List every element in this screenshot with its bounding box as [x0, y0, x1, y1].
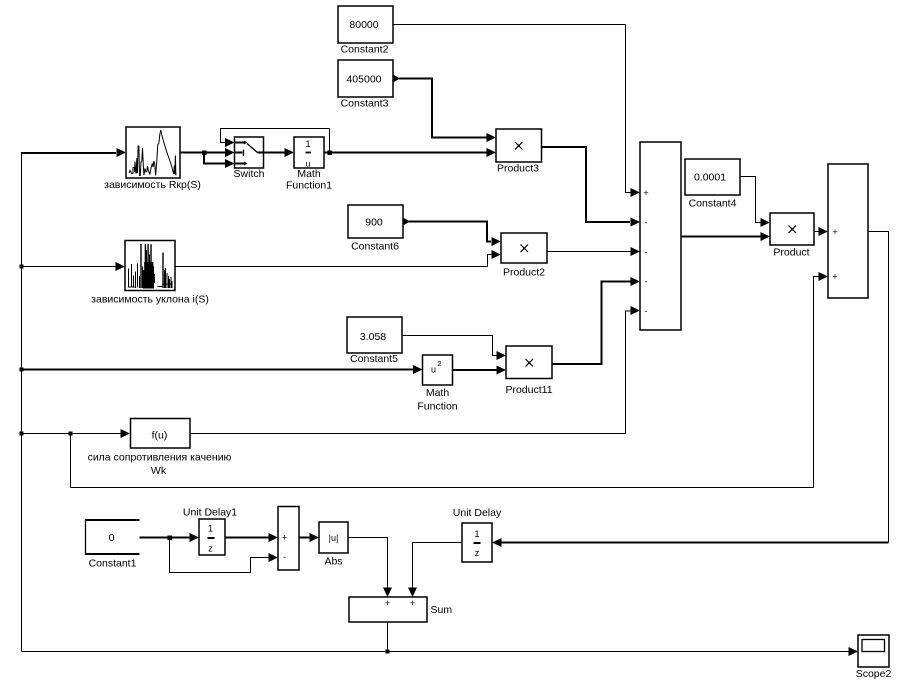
- block f(u) Fcn: [131, 419, 191, 449]
- wire Abs output to bottom Sum input1: [348, 538, 388, 589]
- svg-text:900: 900: [365, 217, 383, 229]
- wire Switch to Math Function1: [264, 152, 286, 154]
- svg-text:зависимость уклона i(S): зависимость уклона i(S): [91, 294, 209, 306]
- wire Product output to right adder input1: [814, 231, 819, 233]
- block Product3: [496, 129, 542, 162]
- block зависимость уклона i(S) lookup: [125, 241, 175, 291]
- wire Constant3 to Product3 input1: [393, 75, 400, 83]
- wire into уклона block: [22, 266, 116, 268]
- svg-text:z: z: [475, 548, 480, 558]
- node junction Constant1 output: [168, 536, 173, 541]
- block right adder: [828, 164, 868, 298]
- wire Unit Delay output to bottom Sum input2: [413, 543, 463, 589]
- wire Constant1 to Unit Delay1: [140, 537, 190, 539]
- block Scope2: [858, 635, 889, 667]
- svg-text:Product3: Product3: [497, 163, 539, 175]
- svg-text:Constant2: Constant2: [341, 44, 389, 56]
- svg-text:Constant6: Constant6: [351, 241, 399, 253]
- node junction bottom sum output: [386, 650, 390, 654]
- wire u2 output to Product1 input2: [453, 369, 498, 371]
- wire Rkp output to Switch input2: [180, 152, 225, 154]
- svg-text:Constant5: Constant5: [350, 353, 398, 365]
- node junction Rkp output: [202, 151, 207, 156]
- node junction at left vertical for f(u): [20, 432, 24, 436]
- wire small adder output to Abs: [299, 537, 310, 539]
- svg-text:Product: Product: [773, 247, 809, 259]
- svg-text:+: +: [832, 227, 837, 237]
- svg-text:2: 2: [437, 359, 441, 368]
- block small adder: [278, 507, 299, 571]
- wire f(u) branch down to right adder: [71, 277, 819, 488]
- block Constant3: [338, 60, 393, 97]
- node junction at left vertical for u2 wire: [20, 368, 24, 372]
- block Constant6: [348, 205, 403, 238]
- wire Constant5 to Product1 input1: [402, 336, 497, 356]
- wire bottom horizontal to Scope2: [22, 651, 850, 653]
- svg-text:1: 1: [474, 529, 479, 539]
- svg-text:+: +: [282, 533, 287, 543]
- svg-text:+: +: [832, 272, 837, 282]
- wire feedback loop to Switch input1: [221, 129, 330, 153]
- svg-text:1: 1: [305, 139, 310, 149]
- svg-text:Math: Math: [426, 387, 450, 399]
- block Sum1 big adder: [640, 142, 681, 330]
- svg-text:Product11: Product11: [505, 384, 552, 396]
- svg-text:Scope2: Scope2: [856, 668, 892, 680]
- svg-text:405000: 405000: [346, 74, 381, 86]
- block Product2: [501, 233, 547, 263]
- block Unit Delay1: [199, 519, 225, 555]
- block Math Function u2: [423, 355, 453, 385]
- svg-text:зависимость Rкp(S): зависимость Rкp(S): [104, 179, 201, 191]
- wire right adder output down to Unit Delay: [868, 232, 889, 543]
- svg-text:Math: Math: [297, 168, 321, 180]
- svg-text:z: z: [208, 544, 213, 554]
- wire Math Function1 output to Product3 input2: [324, 152, 487, 154]
- svg-text:Unit Delay1: Unit Delay1: [183, 507, 237, 519]
- svg-text:-: -: [645, 306, 648, 316]
- svg-text:Unit Delay: Unit Delay: [453, 507, 502, 519]
- wire f(u) output to Sum1 input5: [189, 311, 631, 434]
- svg-text:-: -: [645, 277, 648, 287]
- svg-text:Sum: Sum: [431, 604, 453, 616]
- svg-text:+: +: [643, 188, 648, 198]
- svg-text:-: -: [645, 247, 648, 257]
- svg-text:u: u: [306, 159, 311, 169]
- svg-text:u: u: [431, 365, 436, 375]
- wire Constant4 to Product input1: [740, 177, 761, 223]
- block Abs: [319, 522, 348, 553]
- block зависимость Rkp(S) lookup: [126, 127, 180, 178]
- block Constant2: [338, 6, 393, 43]
- block Switch: [235, 137, 264, 168]
- wire Unit Delay1 output to small adder plus input: [225, 537, 269, 539]
- wire Constant2 to Sum1 input1: [393, 25, 631, 193]
- wire Sum1 output to Product input2: [681, 236, 761, 238]
- wire left vertical feedback S: [21, 153, 23, 652]
- wire Constant6 to Product2 input1: [403, 218, 410, 226]
- wire branch to Switch input3: [204, 153, 225, 164]
- svg-text:0: 0: [109, 532, 115, 544]
- svg-text:Product2: Product2: [503, 267, 545, 279]
- svg-text:Switch: Switch: [234, 168, 265, 180]
- block Product1: [506, 346, 552, 379]
- wire Product1 output to Sum1 input4: [552, 282, 631, 365]
- svg-text:Constant4: Constant4: [689, 198, 737, 210]
- wire Product2 output to Sum1 input3: [547, 251, 631, 253]
- svg-text:Function1: Function1: [286, 180, 332, 192]
- svg-text:-: -: [645, 218, 648, 228]
- block Math Function1 1/u: [294, 137, 324, 168]
- svg-text:|u|: |u|: [329, 533, 339, 543]
- wire into Rkp block: [21, 152, 116, 154]
- svg-text:Abs: Abs: [324, 556, 342, 568]
- svg-text:0.0001: 0.0001: [694, 172, 726, 184]
- svg-text:+: +: [385, 598, 390, 608]
- svg-text:Constant3: Constant3: [341, 98, 389, 110]
- svg-text:Constant1: Constant1: [89, 558, 137, 570]
- svg-text:80000: 80000: [349, 19, 378, 31]
- svg-text:Function: Function: [417, 401, 457, 413]
- wire уклона output to Product2 input2: [175, 255, 492, 267]
- block Constant5: [347, 317, 402, 353]
- wire bold S to Math Function u2: [21, 369, 413, 371]
- svg-text:-: -: [283, 552, 286, 562]
- block Unit Delay flipped: [462, 523, 492, 562]
- block bottom Sum: [349, 597, 427, 622]
- svg-text:3.058: 3.058: [360, 331, 386, 343]
- wire branch to small adder minus input: [170, 538, 269, 573]
- wire Product3 output to Sum1 input2: [542, 147, 631, 222]
- node junction on f(u) input line: [69, 432, 73, 436]
- block Product: [770, 213, 814, 245]
- svg-text:1: 1: [208, 524, 213, 534]
- block Constant1: [86, 519, 140, 555]
- node junction at left vertical for уклона: [20, 265, 24, 269]
- svg-text:сила сопротивления качению: сила сопротивления качению: [88, 452, 232, 464]
- svg-text:Wk: Wk: [151, 465, 167, 477]
- node junction Math Function1 output: [328, 151, 333, 156]
- block Constant4: [685, 159, 740, 195]
- wire bottom Sum output down to bottom line: [387, 622, 389, 652]
- wire into f(u): [22, 433, 121, 435]
- svg-text:f(u): f(u): [152, 430, 168, 442]
- svg-text:+: +: [410, 598, 415, 608]
